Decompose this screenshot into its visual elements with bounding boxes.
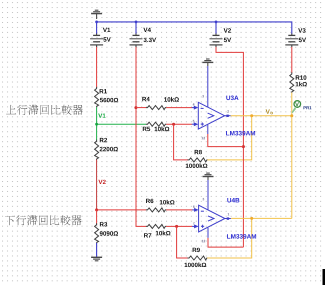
caption: lower hysteresis comparator <box>5 215 82 225</box>
wire: blue R3 bottom to ground <box>96 243 98 257</box>
wire: yellow vertical U3A out to U4B out <box>291 116 293 219</box>
wire: red V2 node to R6 <box>97 209 147 211</box>
wire: blue drop to V1 top <box>96 22 98 34</box>
node: Vo/probe tap <box>290 114 293 117</box>
node: junction rail/V2 <box>215 21 218 24</box>
ground (bottom) <box>91 257 102 261</box>
pin numbers U4B <box>193 198 229 242</box>
resistor R6 10k (horizontal) <box>146 208 166 212</box>
op-amp U3A LM339AM <box>192 102 231 134</box>
label U3A <box>226 96 238 101</box>
wire: V4 bottom red long vertical to R7 <box>136 47 146 226</box>
ground above U3A <box>202 59 213 66</box>
ground (top, above rail) <box>91 10 102 19</box>
node: junction rail/U3A power <box>242 145 245 148</box>
resistor R9 1000k (horizontal) <box>188 256 208 260</box>
wire: red U3A bottom pin elbow to +5V rail <box>208 134 244 147</box>
battery V1 <box>90 34 103 48</box>
wire: blue ground to U3A top pin <box>207 66 209 107</box>
ground above U4B <box>203 173 214 180</box>
decorative black bar bottom-right <box>323 269 325 285</box>
resistor R10 1k (vertical) <box>290 72 294 92</box>
node: junction rail/V4 <box>135 21 138 24</box>
wire: top blue rail from ground junction to V3 <box>97 22 292 34</box>
wire: red V2 node down to R3 <box>96 210 98 225</box>
op-amp U4B LM339AM <box>192 205 231 238</box>
output stub <box>225 115 231 117</box>
output pin dot <box>226 115 228 117</box>
net label Vo <box>266 109 270 113</box>
resistor R4 10k (horizontal) <box>136 107 146 109</box>
wire: blue drop to V2 top <box>215 22 217 34</box>
node: U4B out/R9 tap <box>250 217 253 220</box>
node: Vo/R8 tap <box>250 114 253 117</box>
wire: yellow Vo output bus <box>231 115 292 117</box>
minus marker <box>201 107 204 109</box>
input stub plus <box>192 123 195 125</box>
node: junction R7/R9/+in <box>175 225 178 228</box>
pin numbers U3A <box>193 95 229 139</box>
battery V4 <box>130 34 143 48</box>
wire: yellow R9 to output junction <box>207 218 252 258</box>
wire: red U4B bottom pin elbow to +5V rail <box>208 238 243 247</box>
wire: V3 bottom red to R10 <box>291 47 293 73</box>
wire: green V1 net vertical R1->R2 <box>96 107 98 140</box>
wire: blue ground to U4B top pin <box>207 180 209 210</box>
input stub minus <box>192 107 195 109</box>
wire: V1 bottom red to R1 <box>96 47 98 88</box>
wire: blue drop to V4 top <box>135 22 137 34</box>
resistor R8 1000k (horizontal) <box>188 158 208 162</box>
wire: yellow R8 to feedback vertical <box>207 116 252 160</box>
comparator chevron <box>208 113 214 118</box>
bottom power pin <box>207 125 209 134</box>
node: junction rail/ground/V1 <box>95 21 98 24</box>
caption: upper hysteresis comparator <box>6 105 83 115</box>
label U4B <box>227 198 239 203</box>
battery V2 <box>210 34 223 48</box>
label LM339AM <box>227 234 256 239</box>
input arrowheads <box>194 106 199 110</box>
resistor R3 9090ohm (vertical) <box>95 223 99 243</box>
probe PR1 <box>292 107 297 113</box>
wire: yellow U4B output to right bus <box>231 217 292 219</box>
label LM339AM <box>226 131 255 136</box>
resistor R1 5600ohm (vertical) <box>95 87 99 107</box>
node: junction V4/R4 <box>134 106 137 109</box>
wire: red junction down to R9 <box>177 226 189 258</box>
resistor R7 10k (horizontal) <box>146 224 166 228</box>
wire: red R2 bottom to V2 node <box>96 160 98 210</box>
node: V2 junction <box>95 208 98 211</box>
wire: green V1 net horizontal to R5 <box>97 123 147 125</box>
battery V3 <box>285 34 298 48</box>
node: junction R5/R8/+in <box>172 123 175 126</box>
resistor R5 10k (horizontal) <box>146 122 166 126</box>
wire: red junction down to R8 <box>174 124 189 160</box>
net label V1 <box>98 114 105 118</box>
wire: V2 red elbow down right rail <box>216 47 243 247</box>
node: V1 junction <box>95 123 98 126</box>
plus marker <box>201 123 204 125</box>
net label V2 <box>98 180 105 184</box>
resistor R2 2200ohm (vertical) <box>95 140 99 160</box>
wire: yellow R10 bottom to Vo <box>291 93 293 116</box>
